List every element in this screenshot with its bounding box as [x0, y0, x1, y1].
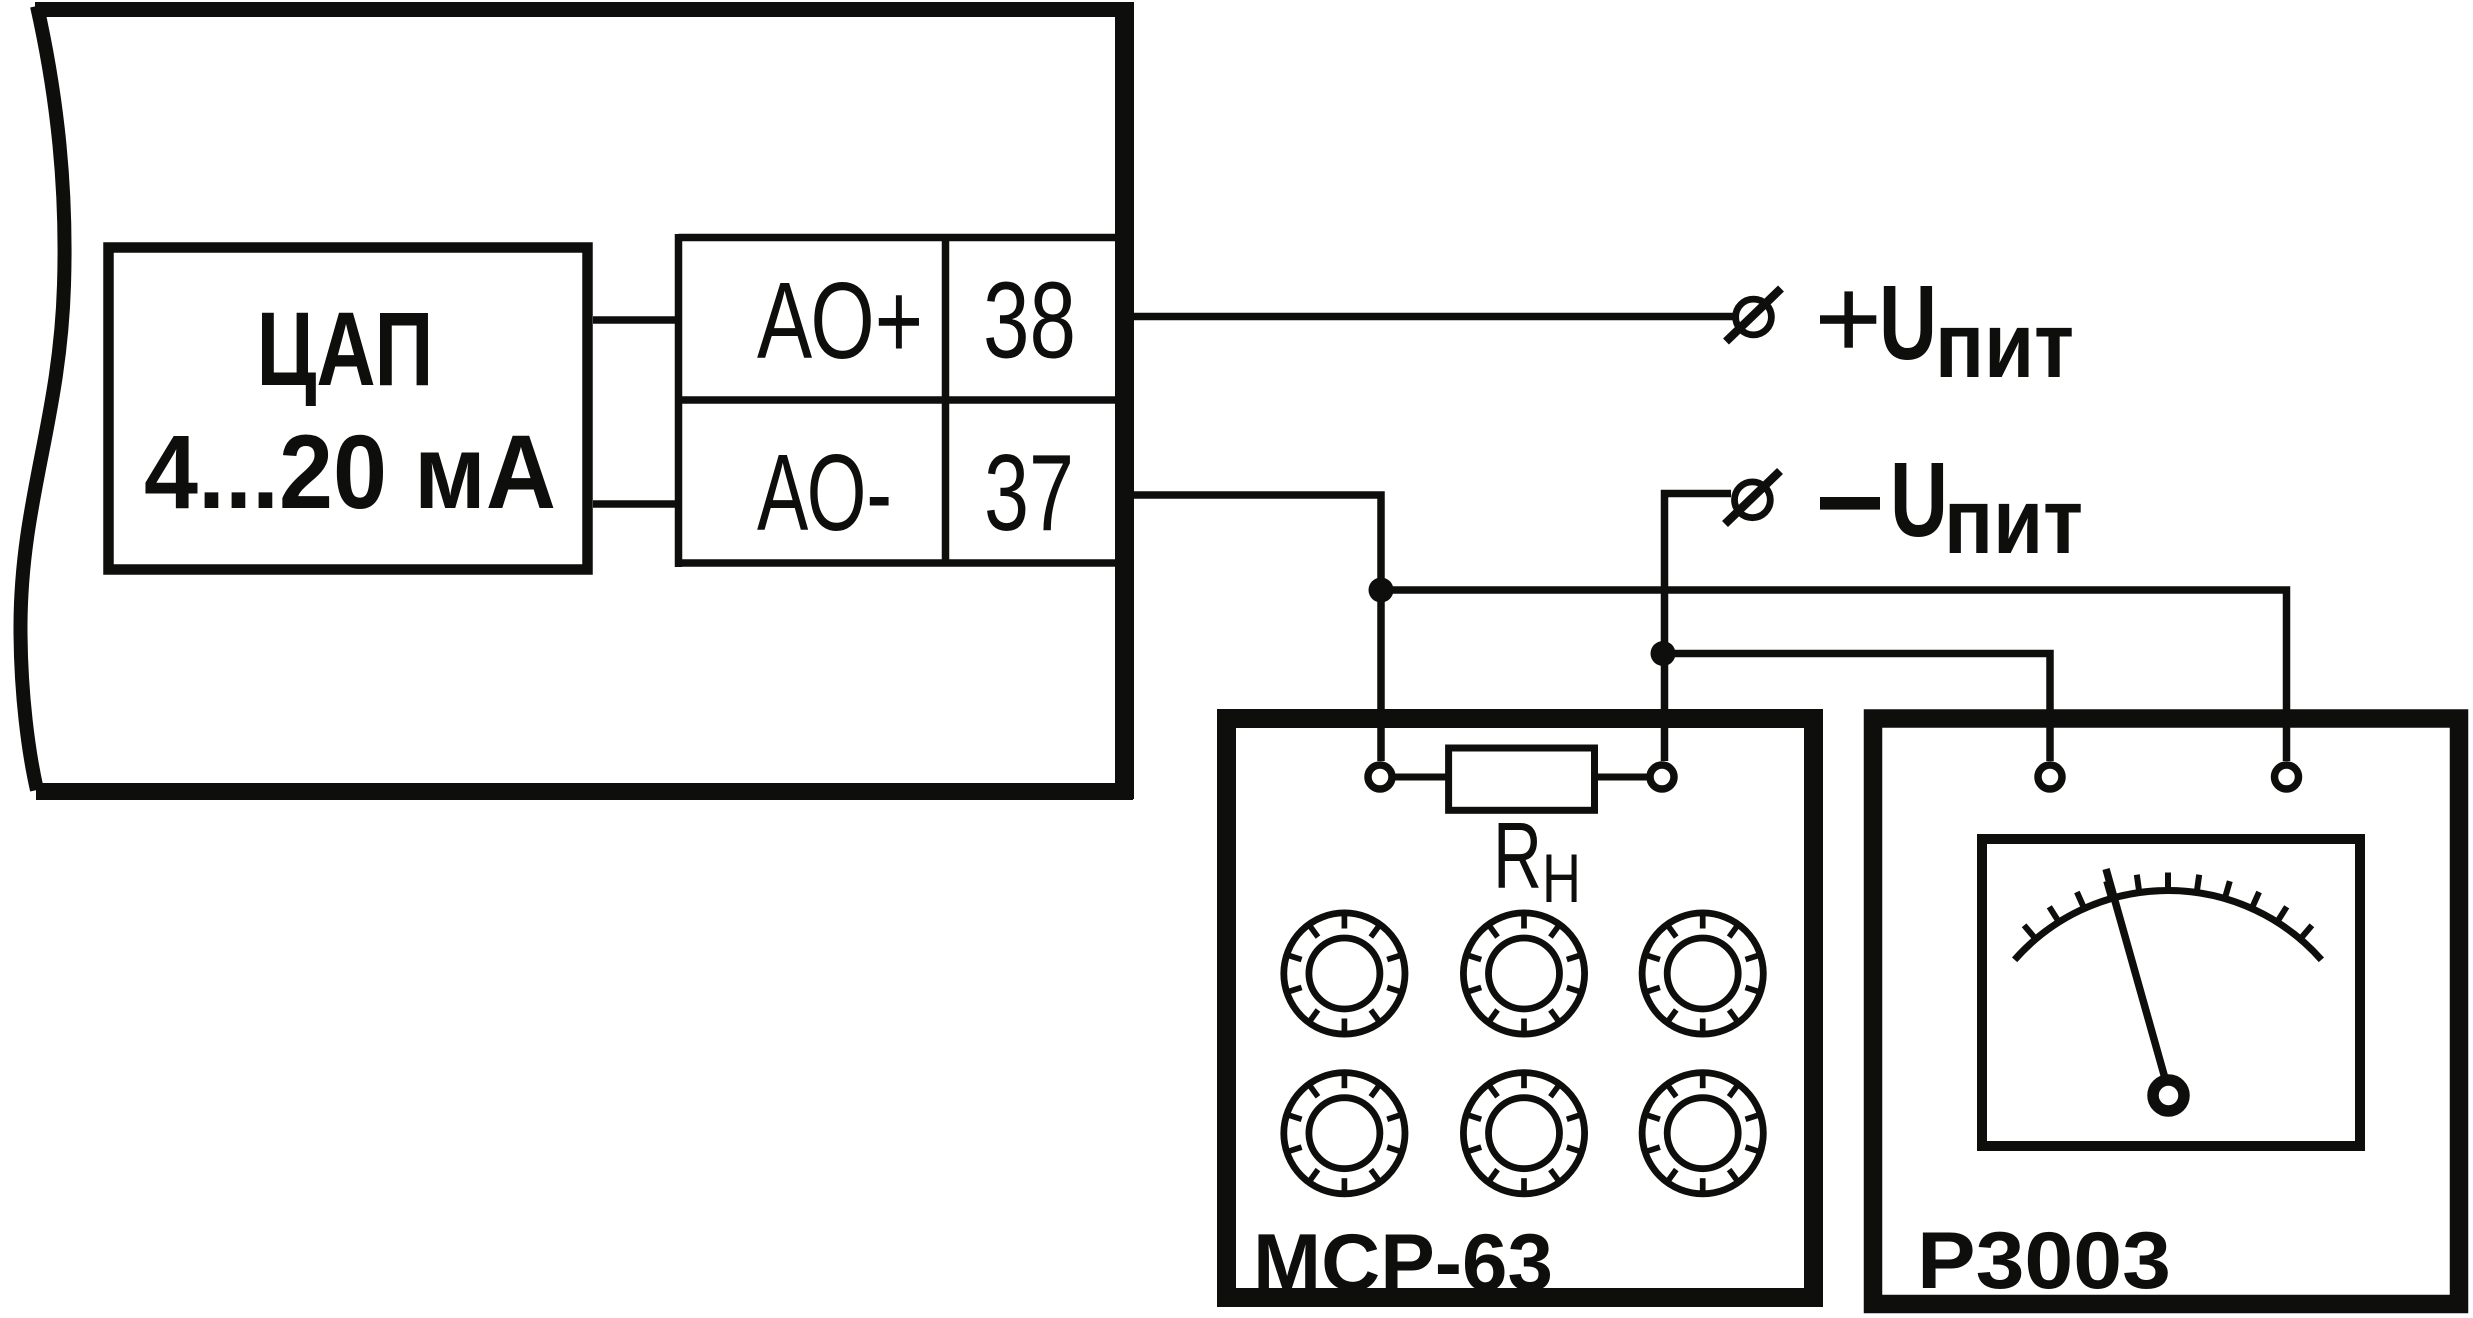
P3003 voltmeter box — [1873, 719, 2459, 1305]
svg-text:пит: пит — [1944, 469, 2083, 573]
terminal block — [679, 234, 1126, 567]
dial switch 2 — [1463, 913, 1584, 1034]
svg-text:38: 38 — [983, 260, 1076, 382]
label +Uпит — [1820, 264, 2074, 397]
wire DAC to AO- — [593, 500, 679, 508]
wire 37 to MCP left terminal — [1134, 495, 1381, 761]
wire -U terminal to MCP right terminal — [1665, 494, 1732, 762]
svg-text:Н: Н — [1542, 840, 1581, 917]
load resistor RH — [1396, 748, 1647, 810]
meter display frame — [1982, 839, 2360, 1146]
label RH — [1493, 803, 1581, 917]
wire branch 37-net to P3003 right terminal — [1381, 590, 2287, 761]
dial switch 5 — [1463, 1073, 1584, 1194]
terminal circle MCP right — [1650, 765, 1674, 789]
meter scale ticks — [2024, 873, 2312, 940]
svg-text:АО-: АО- — [757, 432, 892, 554]
svg-text:U: U — [1879, 264, 1937, 382]
svg-text:U: U — [1890, 441, 1948, 559]
dial switch 6 — [1642, 1073, 1763, 1194]
MCP-63 resistance box — [1227, 719, 1814, 1298]
dial switch 4 — [1284, 1073, 1405, 1194]
meter needle — [2106, 869, 2172, 1103]
svg-text:R: R — [1493, 803, 1542, 908]
svg-text:пит: пит — [1935, 293, 2074, 397]
wire 38 to +U terminal — [1134, 313, 1733, 320]
svg-text:МСР-63: МСР-63 — [1253, 1218, 1553, 1308]
wire DAC to AO+ — [593, 316, 679, 324]
junction node on 37 net — [1369, 578, 1394, 603]
junction node on -U net — [1651, 641, 1676, 666]
svg-text:4...20 мА: 4...20 мА — [144, 414, 556, 531]
terminal circle MCP left — [1368, 765, 1392, 789]
terminal symbol +U (circle slash) — [1726, 289, 1781, 342]
device outline (torn-edge box) — [20, 2, 1133, 799]
dial switch 1 — [1284, 913, 1405, 1034]
svg-text:37: 37 — [984, 432, 1074, 554]
terminal circle P3003 left — [2038, 765, 2062, 789]
svg-text:АО+: АО+ — [757, 260, 923, 382]
needle pivot — [2153, 1080, 2184, 1111]
label -Uпит — [1820, 441, 2083, 573]
DAC block ЦАП 4...20 мА — [109, 248, 588, 570]
dial switch 3 — [1642, 913, 1763, 1034]
svg-text:Р3003: Р3003 — [1917, 1216, 2171, 1306]
wire branch -U net to P3003 left terminal — [1665, 654, 2051, 762]
svg-text:ЦАП: ЦАП — [257, 291, 434, 408]
terminal circle P3003 right — [2275, 765, 2299, 789]
terminal symbol -U (circle slash) — [1725, 471, 1780, 524]
meter scale arc — [2015, 891, 2322, 960]
